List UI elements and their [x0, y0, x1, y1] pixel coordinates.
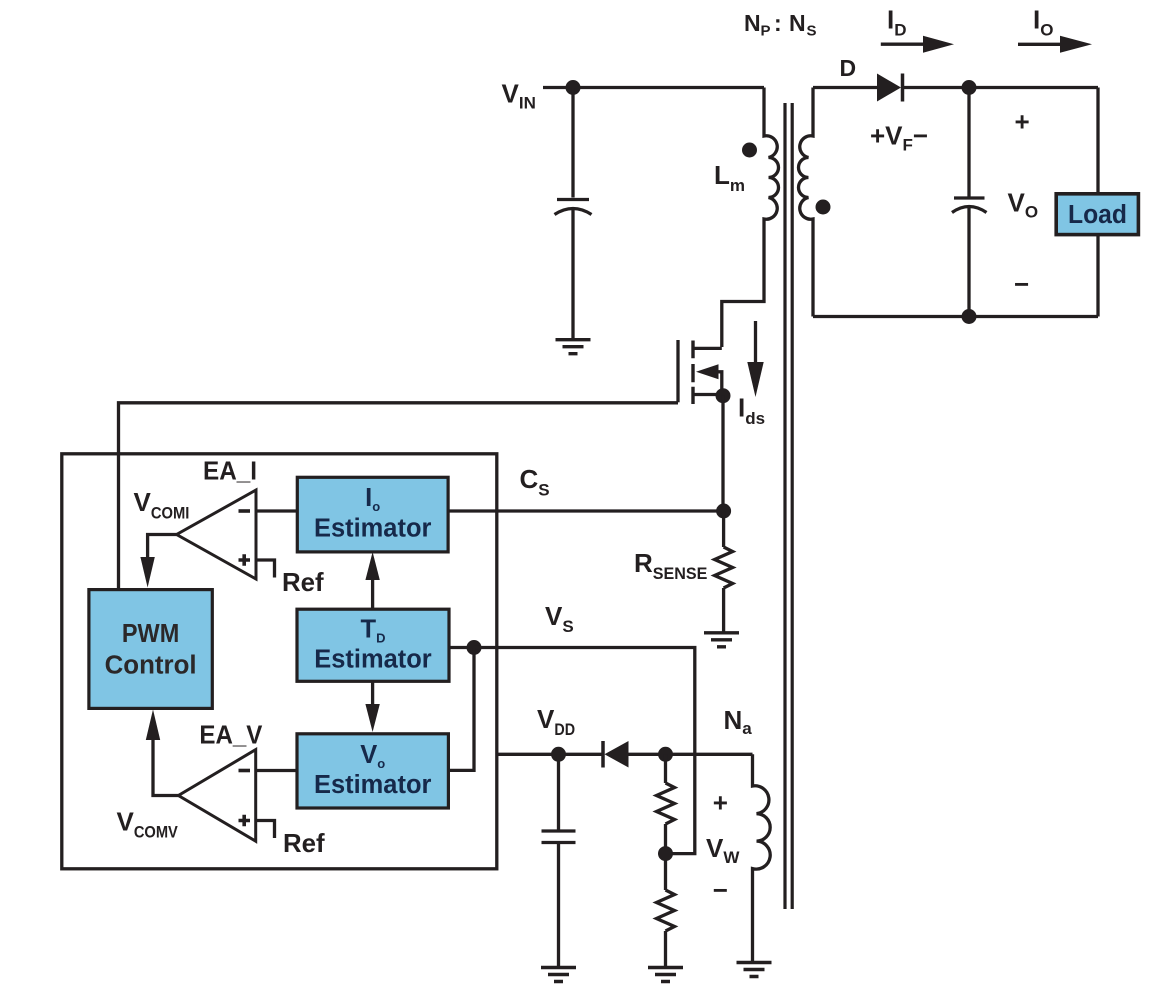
node TD output: [467, 640, 482, 655]
wire source down to Cs node: [721, 396, 724, 511]
svg-text:−: −: [1014, 269, 1029, 299]
wire EA_V output to PWM with arrow: [146, 710, 179, 796]
svg-text:+: +: [713, 787, 728, 817]
label NP : NS: [744, 10, 817, 40]
node divider tap: [658, 846, 673, 861]
EA_I minus: [239, 509, 251, 513]
wire output right side lower: [1096, 234, 1099, 317]
label Ref (EA_I): [282, 567, 324, 597]
wire VIN to transformer primary: [543, 86, 764, 89]
current arrow ID: [881, 36, 954, 53]
resistor RSENSE: [715, 547, 733, 588]
arrow TD estimator to Vo estimator: [365, 681, 379, 732]
primary dot: [742, 143, 757, 158]
label Na: [724, 705, 753, 738]
resistor R1 (divider top): [657, 783, 675, 824]
wire EA_I minus input to Io estimator: [256, 509, 297, 512]
wire VDD node down to cap: [557, 754, 560, 829]
gate wire from PWM control: [119, 403, 679, 589]
wire EA_V minus input to Vo estimator: [256, 769, 297, 772]
label VDD: [537, 704, 575, 739]
node Cs: [716, 504, 731, 519]
TD estimator box: [297, 609, 449, 681]
EA_V plus: [239, 815, 251, 827]
wire diode to Na winding: [629, 753, 753, 756]
svg-text:Ref: Ref: [283, 828, 325, 858]
node output top: [962, 80, 977, 95]
current arrow IO: [1018, 36, 1092, 53]
transistor Q1 MOSFET gate bar: [676, 340, 679, 402]
label VS: [545, 601, 574, 636]
svg-text:Control: Control: [105, 651, 197, 679]
wire R2 to ground: [664, 931, 667, 966]
label VCOMI: [134, 487, 190, 522]
MOSFET source: [695, 393, 724, 396]
wire diode to output top right: [903, 86, 1099, 89]
svg-text:+: +: [1015, 107, 1030, 137]
label VIN: [502, 78, 536, 112]
label Ref (EA_V): [283, 828, 325, 858]
control block outer box: [62, 454, 497, 869]
wire Rsense to ground: [722, 588, 725, 632]
capacitor COUT: [952, 198, 987, 317]
wire node to Rsense: [722, 511, 725, 547]
node VDD: [551, 747, 566, 762]
wire R1 to tap node: [664, 824, 667, 890]
node output bottom: [962, 309, 977, 324]
label IO: [1033, 5, 1053, 40]
wire EA_I output to PWM with arrow: [140, 535, 176, 588]
label + (output): [1015, 107, 1030, 137]
label ID: [887, 5, 907, 40]
current arrow Ids: [747, 321, 763, 397]
svg-text:D: D: [840, 55, 857, 81]
label - (Na): [713, 875, 728, 905]
capacitor CDD: [542, 831, 576, 966]
label VCOMV: [117, 807, 179, 842]
EA_I ref bracket: [256, 560, 275, 578]
ground (input cap): [556, 340, 591, 354]
wire VIN node down to input cap: [571, 88, 574, 198]
diode D: [877, 74, 903, 102]
wire divider top node down: [664, 754, 667, 783]
label + (Na): [713, 787, 728, 817]
node VIN: [566, 80, 581, 95]
Vo estimator box: [297, 734, 448, 808]
MOSFET channel segments: [691, 341, 694, 405]
op-amp EA_V: [178, 750, 255, 842]
transformer T1 primary winding Lm: [722, 88, 779, 348]
svg-text:PWM: PWM: [122, 620, 179, 648]
wire VDD from control box to diode: [497, 753, 603, 756]
arrow TD estimator to Io estimator: [365, 552, 379, 609]
op-amp EA_I: [177, 490, 256, 579]
ground (Na): [737, 963, 772, 977]
label - (output): [1014, 269, 1029, 299]
svg-text:Estimator: Estimator: [314, 515, 431, 543]
wire TD estimator output: [449, 646, 474, 649]
wire output right side down: [1096, 88, 1099, 195]
label CS: [520, 464, 550, 500]
svg-text:Estimator: Estimator: [314, 771, 431, 799]
auxiliary winding Na: [753, 754, 771, 961]
capacitor CIN: [555, 200, 592, 340]
label RSENSE: [634, 548, 707, 583]
diode D2 (VDD): [603, 741, 629, 768]
EA_I plus: [239, 554, 251, 566]
svg-text:−: −: [713, 875, 728, 905]
label VO: [1008, 187, 1039, 221]
load box: [1056, 194, 1138, 235]
svg-text:+VF−: +VF−: [870, 120, 928, 154]
wire TD node down to Vo estimator output: [449, 648, 474, 771]
wire output bottom: [813, 315, 1098, 318]
transformer core: [785, 103, 792, 909]
resistor R2 (divider bottom): [657, 890, 675, 931]
MOSFET body arrow: [696, 364, 722, 394]
wire Cs from Io Estimator to node: [449, 509, 724, 512]
MOSFET drain: [695, 347, 722, 350]
label Lm: [714, 160, 745, 195]
label +VF-: [870, 120, 928, 154]
transformer T1 secondary winding: [799, 88, 814, 317]
label VW: [706, 833, 740, 867]
wire Vs from node to divider tap: [474, 648, 695, 854]
wire secondary to diode D: [813, 86, 877, 89]
PWM control box U1: [89, 590, 212, 709]
ground (VDD cap): [541, 968, 576, 982]
wire node to output cap: [967, 88, 970, 198]
EA_V ref bracket: [256, 821, 275, 839]
label D: [840, 55, 857, 81]
svg-text:Estimator: Estimator: [314, 645, 431, 673]
Io estimator box: [297, 477, 448, 552]
svg-text:EA_V: EA_V: [199, 720, 263, 750]
svg-text:Load: Load: [1068, 201, 1127, 229]
node divider top: [658, 747, 673, 762]
EA_V minus: [239, 769, 251, 773]
label EA_I: [203, 455, 257, 485]
svg-text:EA_I: EA_I: [203, 455, 257, 485]
ground (divider): [648, 968, 683, 982]
label EA_V: [199, 720, 263, 750]
node source: [716, 388, 731, 403]
label Ids: [738, 393, 765, 429]
svg-text:Ref: Ref: [282, 567, 324, 597]
ground (Rsense): [704, 633, 739, 647]
secondary dot: [816, 200, 831, 215]
